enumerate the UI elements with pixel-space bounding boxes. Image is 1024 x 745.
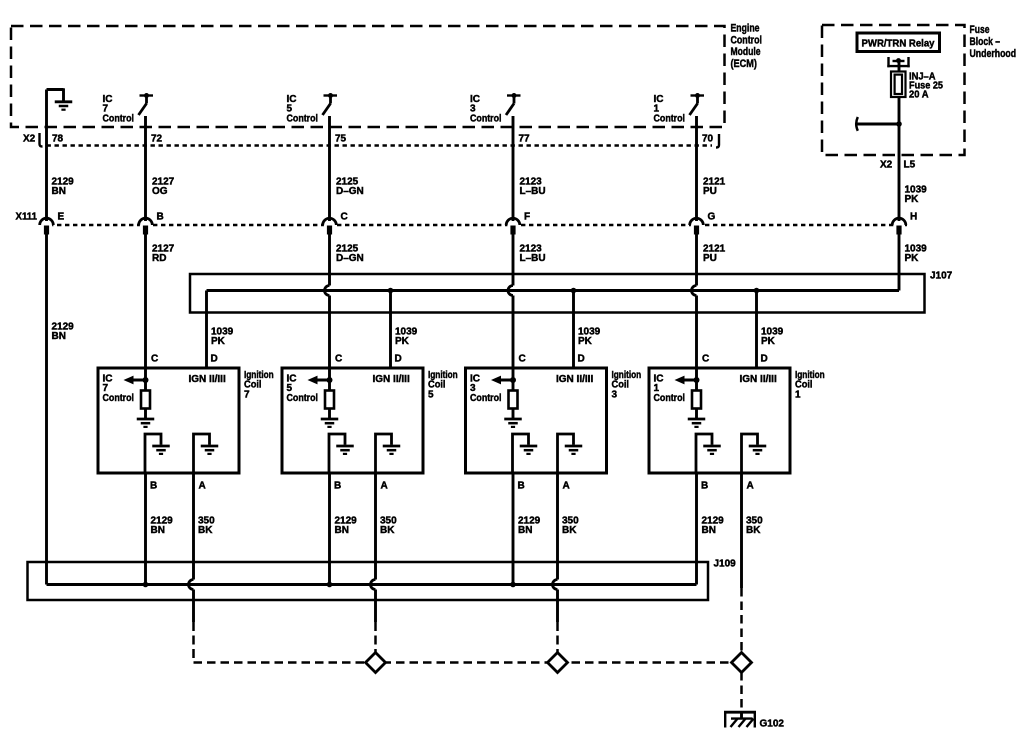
svg-text:B: B xyxy=(518,481,525,492)
wire relay to fuse xyxy=(898,61,901,72)
svg-text:Underhood: Underhood xyxy=(970,48,1017,60)
svg-text:BN: BN xyxy=(52,331,66,342)
svg-text:77: 77 xyxy=(519,134,531,145)
splice pack J107 bus line xyxy=(207,289,900,292)
internal ground hook B (coil 3) xyxy=(513,434,538,473)
relay contact arm xyxy=(856,117,902,131)
wire resistor to ground (coil 7) xyxy=(144,409,147,419)
internal ground hook A (coil 3) xyxy=(558,434,583,473)
svg-text:(ECM): (ECM) xyxy=(731,58,758,70)
svg-text:IGN II/III: IGN II/III xyxy=(556,374,593,385)
junction dot J107 (coil 1 D) xyxy=(754,288,760,294)
splice diamond S2 xyxy=(548,653,568,673)
wire 1039 PK (J107 to coil 1 pin D) xyxy=(755,291,758,369)
splice diamond S1 xyxy=(366,653,386,673)
splice pack J109 bus line xyxy=(47,583,697,586)
svg-text:J109: J109 xyxy=(714,559,737,570)
label 1039 PK (above H) xyxy=(905,185,928,206)
svg-text:BK: BK xyxy=(562,525,577,536)
svg-text:20 A: 20 A xyxy=(909,90,929,101)
label G102 xyxy=(760,719,785,730)
svg-text:5: 5 xyxy=(428,389,434,400)
pin A letter (coil 5) xyxy=(381,481,388,492)
svg-text:G102: G102 xyxy=(760,719,785,730)
svg-text:PWR/TRN Relay: PWR/TRN Relay xyxy=(862,38,935,50)
IGN II/III label (coil 5) xyxy=(373,374,410,385)
coil 5 primary resistor xyxy=(325,391,334,409)
label 2129 BN (upper) xyxy=(52,177,75,198)
ground symbol (coil 5 primary) xyxy=(321,419,339,427)
ignition coil 5 box xyxy=(282,368,423,473)
label 1039 PK (below H) xyxy=(905,244,928,265)
svg-text:B: B xyxy=(157,212,164,223)
wire 2129 BN (X111 E down to J109) xyxy=(45,235,48,585)
IC 3 Control label (ECM) xyxy=(470,94,502,124)
svg-text:PU: PU xyxy=(703,186,717,197)
label L5 (fuse block) xyxy=(904,160,916,171)
wire 2127 (IC 7 to X111) xyxy=(144,116,147,221)
svg-text:D: D xyxy=(761,354,768,365)
wire resistor to ground (coil 1) xyxy=(695,409,698,419)
dashed wire (coil 3 ground run) xyxy=(556,622,559,663)
svg-text:Control: Control xyxy=(731,34,763,46)
internal ground hook B (coil 1) xyxy=(696,434,721,473)
pin A letter (coil 1) xyxy=(747,481,754,492)
connector X111 label xyxy=(16,212,38,223)
svg-text:E: E xyxy=(58,212,65,223)
svg-text:X2: X2 xyxy=(23,134,36,145)
svg-text:A: A xyxy=(563,481,570,492)
Fuse Block label xyxy=(970,24,1017,60)
pin B letter (coil 5) xyxy=(334,481,341,492)
wire 2129 BN (coil 1 B to J109) xyxy=(695,473,698,585)
dashed wire (coil 7 ground run down) xyxy=(192,622,195,663)
svg-text:IGN II/III: IGN II/III xyxy=(740,374,777,385)
label 350 BK (coil 7) xyxy=(198,516,215,537)
label 2125 D&#8211;GN xyxy=(336,177,364,198)
wire 350 BK (coil 5 A) xyxy=(371,473,376,622)
ECM module outline box xyxy=(11,26,725,127)
ignition coil 1 box xyxy=(649,368,790,473)
svg-text:PK: PK xyxy=(905,194,920,205)
pin C letter (coil 5) xyxy=(335,354,342,365)
ECM label xyxy=(731,23,763,70)
terminal B letter xyxy=(157,212,164,223)
svg-text:BK: BK xyxy=(198,525,213,536)
svg-text:Control: Control xyxy=(287,393,319,404)
label 2127 RD (lower) xyxy=(152,244,175,265)
svg-text:IGN II/III: IGN II/III xyxy=(189,374,226,385)
svg-text:B: B xyxy=(701,481,708,492)
wire 1039 PK (J107 to coil 7 pin D) xyxy=(205,291,208,369)
svg-text:Control: Control xyxy=(103,393,135,404)
svg-text:D–GN: D–GN xyxy=(336,253,364,264)
label J109 xyxy=(714,559,737,570)
internal ground hook A (coil 5) xyxy=(376,434,401,473)
terminal G letter xyxy=(708,212,716,223)
Ignition Coil 1 label xyxy=(795,370,825,400)
label 350 BK (coil 5) xyxy=(380,516,397,537)
wire 2127 (X111 B to coil 7 pin C) xyxy=(144,235,147,391)
IC 5 Control driver switch (ECM) xyxy=(323,93,338,115)
pin A letter (coil 3) xyxy=(563,481,570,492)
ground symbol (coil 7 primary) xyxy=(137,419,155,427)
svg-text:C: C xyxy=(151,354,158,365)
svg-text:C: C xyxy=(702,354,709,365)
svg-text:C: C xyxy=(335,354,342,365)
splice diamond S3 xyxy=(732,653,752,673)
connector X111 dotted line xyxy=(41,224,907,227)
svg-text:D–GN: D–GN xyxy=(336,186,364,197)
label 1039 PK (coil 3) xyxy=(578,327,601,348)
IC 5 Control label (coil box) xyxy=(287,374,319,404)
svg-text:BN: BN xyxy=(702,525,716,536)
svg-text:PU: PU xyxy=(703,253,717,264)
svg-text:B: B xyxy=(150,481,157,492)
wire resistor to ground (coil 3) xyxy=(512,409,515,419)
wire 2129 BN (coil 3 B to J109) xyxy=(512,473,515,585)
junction dot J107 (coil 5 D) xyxy=(388,288,394,294)
coil 7 primary resistor xyxy=(141,391,150,409)
ground G102 symbol xyxy=(724,711,756,728)
pin B letter (coil 3) xyxy=(518,481,525,492)
wire 350 BK (coil 1 A) xyxy=(740,473,743,588)
coil 3 primary resistor xyxy=(509,391,518,409)
svg-text:C: C xyxy=(341,212,348,223)
ground symbol (coil 3 primary) xyxy=(504,419,522,427)
wire 2125 (IC 5 to X111) xyxy=(328,116,331,221)
svg-text:70: 70 xyxy=(702,134,714,145)
svg-text:L–BU: L–BU xyxy=(520,253,546,264)
IC 5 Control label (ECM) xyxy=(287,94,319,124)
label 2121 PU (lower) xyxy=(703,244,726,265)
pin 75 label (X2) xyxy=(335,134,347,145)
pin D letter (coil 3) xyxy=(578,354,585,365)
label 1039 PK (coil 7) xyxy=(211,327,234,348)
svg-text:L5: L5 xyxy=(904,160,916,171)
terminal B (X111) xyxy=(139,218,153,234)
PWR/TRN Relay label xyxy=(862,38,935,50)
svg-text:A: A xyxy=(381,481,388,492)
coil 1 primary resistor xyxy=(692,391,701,409)
svg-text:BK: BK xyxy=(746,525,761,536)
Ignition Coil 7 label xyxy=(244,370,274,400)
arrow IC 7 control xyxy=(124,376,149,385)
terminal E letter xyxy=(58,212,65,223)
IC 3 Control label (coil box) xyxy=(470,374,502,404)
junction dot J109 (coil 7 B) xyxy=(143,582,149,588)
label 2121 PU xyxy=(703,177,726,198)
label 2129 BN (wire E lower) xyxy=(52,322,75,343)
ignition coil 7 box xyxy=(98,368,239,473)
IC 7 Control label (coil box) xyxy=(103,374,135,404)
svg-text:A: A xyxy=(747,481,754,492)
pin D letter (coil 5) xyxy=(395,354,402,365)
svg-text:PK: PK xyxy=(211,336,226,347)
arrow IC 3 control xyxy=(491,376,516,385)
label X2 (fuse block) xyxy=(880,160,893,171)
IC 3 Control driver switch (ECM) xyxy=(506,93,521,115)
dashed wire (coil 1 ground run) xyxy=(740,588,743,663)
svg-text:F: F xyxy=(524,212,530,223)
wire 2129 BN (coil 5 B to J109) xyxy=(328,473,331,585)
label 1039 PK (coil 5) xyxy=(395,327,418,348)
wire 2129 BN (coil 7 B to J109) xyxy=(144,473,147,585)
pin 70 label (X2) xyxy=(702,134,714,145)
terminal H letter xyxy=(910,212,917,223)
svg-text:D: D xyxy=(211,354,218,365)
label INJ-A Fuse 25 20 A xyxy=(909,72,943,101)
svg-text:X111: X111 xyxy=(16,212,38,223)
IGN II/III label (coil 3) xyxy=(556,374,593,385)
pin B letter (coil 1) xyxy=(701,481,708,492)
IC 1 Control label (coil box) xyxy=(654,374,686,404)
svg-text:H: H xyxy=(910,212,917,223)
terminal F (X111) xyxy=(506,218,520,234)
svg-text:L–BU: L–BU xyxy=(520,186,546,197)
svg-text:BN: BN xyxy=(518,525,532,536)
Ignition Coil 5 label xyxy=(428,370,458,400)
svg-text:BN: BN xyxy=(335,525,349,536)
wire 1039 PK (X111 H to J107) xyxy=(898,235,901,291)
wire 2123 (X111 F to coil 3 pin C) xyxy=(508,235,513,391)
pin B letter (coil 7) xyxy=(150,481,157,492)
arrow IC 5 control xyxy=(308,376,333,385)
dashed wire (coil 5 ground run) xyxy=(374,622,377,663)
label 2123 L&#8211;BU (lower) xyxy=(520,244,546,265)
relay output bracket xyxy=(887,57,909,67)
svg-text:Control: Control xyxy=(470,393,502,404)
pin A letter (coil 7) xyxy=(199,481,206,492)
junction dot J109 (coil 5 B) xyxy=(327,582,333,588)
wire 2121 (IC 1 to X111) xyxy=(695,116,698,221)
wire 2121 (X111 G to coil 1 pin C) xyxy=(692,235,697,391)
wire 350 BK (coil 7 A) xyxy=(189,473,194,622)
terminal H (X111) xyxy=(892,218,906,234)
PWR/TRN Relay box xyxy=(857,33,940,52)
svg-text:BN: BN xyxy=(151,525,165,536)
label 2129 BN (coil 7) xyxy=(151,516,174,537)
IC 1 Control driver switch (ECM) xyxy=(690,93,705,115)
svg-text:IGN II/III: IGN II/III xyxy=(373,374,410,385)
svg-text:Module: Module xyxy=(731,46,761,58)
ignition coil 3 box xyxy=(466,368,607,473)
IC 1 Control label (ECM) xyxy=(654,94,686,124)
Fuse Block outline box xyxy=(822,25,965,155)
svg-text:D: D xyxy=(395,354,402,365)
svg-text:PK: PK xyxy=(395,336,410,347)
svg-text:Engine: Engine xyxy=(731,23,760,35)
label 2129 BN (coil 5) xyxy=(335,516,358,537)
svg-text:3: 3 xyxy=(612,389,618,400)
svg-text:RD: RD xyxy=(152,253,166,264)
ground symbol (ECM internal, wire E) xyxy=(47,88,73,109)
svg-text:Block –: Block – xyxy=(970,36,1001,48)
label 350 BK (coil 1) xyxy=(746,516,763,537)
internal ground hook B (coil 5) xyxy=(329,434,354,473)
svg-text:Control: Control xyxy=(470,113,502,124)
pin C letter (coil 3) xyxy=(519,354,526,365)
pin 72 label (X2) xyxy=(151,134,163,145)
pin 77 label (X2) xyxy=(519,134,531,145)
junction dot J109 (coil 3 B) xyxy=(510,582,516,588)
label 1039 PK (coil 1) xyxy=(761,327,784,348)
internal ground hook A (coil 1) xyxy=(742,434,767,473)
label 2129 BN (coil 3) xyxy=(518,516,541,537)
svg-text:78: 78 xyxy=(52,134,64,145)
dashed wire (to G102) xyxy=(740,672,743,711)
wire 2123 (IC 3 to X111) xyxy=(512,116,515,221)
Ignition Coil 3 label xyxy=(612,370,642,400)
pin 78 label (X2) xyxy=(52,134,64,145)
svg-text:Control: Control xyxy=(654,113,686,124)
svg-text:Control: Control xyxy=(654,393,686,404)
internal ground hook A (coil 7) xyxy=(194,434,219,473)
arrow IC 1 control xyxy=(675,376,700,385)
svg-text:PK: PK xyxy=(578,336,593,347)
svg-text:Control: Control xyxy=(287,113,319,124)
svg-text:J107: J107 xyxy=(930,271,953,282)
terminal E (X111) xyxy=(40,218,54,234)
wire 1039 PK (J107 to coil 5 pin D) xyxy=(389,291,392,369)
IGN II/III label (coil 1) xyxy=(740,374,777,385)
svg-text:C: C xyxy=(519,354,526,365)
splice pack J107 housing xyxy=(190,274,925,313)
svg-text:75: 75 xyxy=(335,134,347,145)
svg-text:Fuse: Fuse xyxy=(970,24,990,36)
svg-text:7: 7 xyxy=(244,389,250,400)
junction dot J107 (coil 3 D) xyxy=(571,288,577,294)
pin C letter (coil 7) xyxy=(151,354,158,365)
pin D letter (coil 1) xyxy=(761,354,768,365)
svg-text:A: A xyxy=(199,481,206,492)
label 2129 BN (coil 1) xyxy=(702,516,725,537)
wire resistor to ground (coil 5) xyxy=(328,409,331,419)
svg-text:BN: BN xyxy=(52,186,66,197)
wire 2125 (X111 C to coil 5 pin C) xyxy=(325,235,330,391)
connector X2 right bracket xyxy=(716,134,719,148)
svg-text:OG: OG xyxy=(152,186,168,197)
connector X2 dotted line xyxy=(47,144,713,147)
dashed ground bus (horizontal) xyxy=(194,661,742,664)
svg-text:PK: PK xyxy=(905,253,920,264)
svg-text:B: B xyxy=(334,481,341,492)
svg-text:BK: BK xyxy=(380,525,395,536)
svg-text:PK: PK xyxy=(761,336,776,347)
svg-text:G: G xyxy=(708,212,716,223)
svg-text:72: 72 xyxy=(151,134,163,145)
svg-text:D: D xyxy=(578,354,585,365)
wire 1039 PK (J107 to coil 3 pin D) xyxy=(572,291,575,369)
IC 7 Control driver switch (ECM) xyxy=(139,93,154,115)
svg-text:X2: X2 xyxy=(880,160,893,171)
wire 2129 BN (E, ECM to X111) xyxy=(45,90,48,222)
pin C letter (coil 1) xyxy=(702,354,709,365)
pin D letter (coil 7) xyxy=(211,354,218,365)
label 2123 L&#8211;BU xyxy=(520,177,546,198)
connector X2 label xyxy=(23,134,36,145)
label 2127 OG xyxy=(152,177,175,198)
fuse INJ-A xyxy=(891,72,906,98)
IGN II/III label (coil 7) xyxy=(189,374,226,385)
IC 7 Control label (ECM) xyxy=(103,94,135,124)
splice pack J109 housing xyxy=(28,562,709,600)
terminal C letter xyxy=(341,212,348,223)
wire 1039 PK (fuse to X111 H) xyxy=(898,97,901,221)
connector X2 left bracket xyxy=(40,133,43,147)
svg-text:1: 1 xyxy=(795,389,801,400)
wire 350 BK (coil 3 A) xyxy=(553,473,558,622)
label 2125 D&#8211;GN (lower) xyxy=(336,244,364,265)
terminal C (X111) xyxy=(323,218,337,234)
svg-text:Control: Control xyxy=(103,113,135,124)
label 350 BK (coil 3) xyxy=(562,516,579,537)
ground symbol (coil 1 primary) xyxy=(688,419,706,427)
label J107 xyxy=(930,271,953,282)
internal ground hook B (coil 7) xyxy=(145,434,170,473)
terminal G (X111) xyxy=(690,218,704,234)
terminal F letter xyxy=(524,212,530,223)
